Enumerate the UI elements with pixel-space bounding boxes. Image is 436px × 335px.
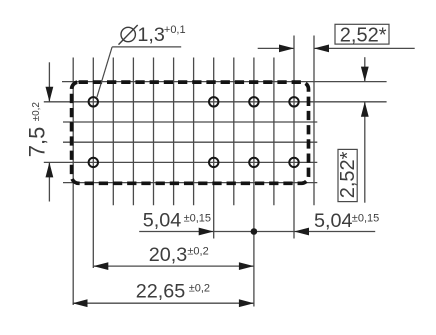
grid vertical line col9 x=253.9 (datum extension) <box>253 58 255 307</box>
hole diameter tolerance +0,1 <box>164 24 186 36</box>
dimension 7,5 left: upper tail line <box>48 62 50 102</box>
svg-text:±0,2: ±0,2 <box>31 102 42 122</box>
svg-text:±0,2: ±0,2 <box>189 282 210 294</box>
dimension 7,5 left: up arrow <box>46 162 54 177</box>
dimension 7,5 left: value text (rotated) <box>24 127 49 158</box>
svg-text:5,04: 5,04 <box>314 210 353 232</box>
dimension 22,65: dimension line <box>73 302 254 304</box>
dimension 22,65: left arrow <box>73 299 88 307</box>
dimension 2,52 top: left arrow <box>279 45 294 53</box>
dimension 2,52 top: left tail line <box>258 47 294 49</box>
hole B3 <box>249 158 258 167</box>
dimension 20,3: left arrow <box>93 262 108 270</box>
dimension 2,52 right: framed value box <box>338 149 357 201</box>
svg-text:5,04: 5,04 <box>143 210 182 232</box>
svg-text:±0,15: ±0,15 <box>184 212 211 224</box>
hole A2 <box>209 97 218 106</box>
dimension 2,52 right: value text (rotated) <box>337 151 359 198</box>
dimension 2,52 right: down arrow <box>361 67 369 82</box>
grid vertical line col8 x=233.8 <box>233 58 235 206</box>
grid horizontal line row5 y=181.6 (bottom edge) <box>63 182 317 184</box>
hole A3 <box>249 97 258 106</box>
relay body outline (dashed rounded rectangle) <box>72 82 309 183</box>
grid vertical line col1 x=93.3 (20,3 extension) <box>92 58 94 269</box>
grid vertical line col3 x=133.4 <box>132 58 134 206</box>
grid vertical line col10 x=273.9 <box>273 58 275 206</box>
dimension 22,65: tolerance ±0,2 <box>189 282 210 294</box>
dimension 2,52 right: upper tail line <box>364 57 366 81</box>
dimension 7,5 left: tolerance ±0,2 (rotated) <box>31 102 42 122</box>
dimension 2,52 right: up arrow <box>361 102 369 117</box>
hole A1 (top-left) <box>89 97 98 106</box>
dimension 20,3: right arrow <box>239 262 254 270</box>
dimension 7,5 left: lower tail line <box>48 162 50 201</box>
grid horizontal line row1 y=101.0 (upper hole row, 7,5 and 2,52 extension) <box>44 101 387 103</box>
svg-text:±0,2: ±0,2 <box>187 245 208 257</box>
grid horizontal line row0 y=80.8 (top edge, 2,52 extension right) <box>62 81 387 83</box>
dimension 22,65: right arrow <box>239 299 254 307</box>
hole diameter label leader line <box>97 47 181 97</box>
dimension 5,04 bottom: left arrow (points right at col7) <box>199 228 214 236</box>
dimension 5,04 right value text <box>314 210 353 232</box>
grid vertical line col11 x=294.0 (2,52 and 5,04 extension) <box>293 36 295 239</box>
hole A4 (top-right) <box>289 97 298 106</box>
svg-text:1,3: 1,3 <box>137 24 165 46</box>
svg-text:+0,1: +0,1 <box>164 24 186 36</box>
dimension 20,3: dimension line <box>93 265 254 267</box>
dimension 2,52 top: right arrow <box>314 45 329 53</box>
hole diameter label text 1,3 <box>137 24 165 46</box>
grid vertical line col2 x=113.3 <box>112 58 114 206</box>
dimension 2,52 top: framed value box <box>335 24 389 44</box>
dimension 20,3: tolerance ±0,2 <box>187 245 208 257</box>
dimension 20,3: value text <box>149 244 188 266</box>
dimension 2,52 top: value text <box>340 25 387 47</box>
dimension 5,04 bottom: dimension line <box>139 231 375 233</box>
svg-text:7,5: 7,5 <box>24 127 49 158</box>
grid horizontal line row2 y=121.1 <box>63 121 317 123</box>
grid vertical line col7 x=213.7 (5,04 extension) <box>213 58 215 239</box>
hole B4 (bottom-right) <box>289 158 298 167</box>
dimension 5,04 right tolerance ±0,15 <box>352 213 379 225</box>
hole B2 <box>209 158 218 167</box>
grid vertical line col12 x=314.0 (2,52 extension) <box>313 36 315 206</box>
svg-text:±0,15: ±0,15 <box>352 213 379 225</box>
grid vertical line col6 x=193.6 <box>193 58 195 206</box>
grid vertical line col5 x=173.6 <box>173 58 175 206</box>
grid horizontal line row4 y=161.4 (lower hole row, 7,5 extension) <box>44 161 318 163</box>
dimension 2,52 top: right tail line <box>314 47 415 49</box>
svg-text:22,65: 22,65 <box>136 280 186 302</box>
grid vertical line col0 x=73.2 (22,65 extension) <box>72 58 74 306</box>
svg-text:20,3: 20,3 <box>149 244 188 266</box>
grid horizontal line row3 y=141.3 <box>63 141 317 143</box>
dimension 7,5 left: down arrow <box>46 87 54 102</box>
hole diameter label text ⌀1,3 <box>119 25 138 45</box>
svg-text:2,52*: 2,52* <box>337 151 359 198</box>
svg-text:2,52*: 2,52* <box>340 25 387 47</box>
dimension 2,52 right: lower tail line <box>364 102 366 203</box>
hole B1 (bottom-left) <box>89 158 98 167</box>
dimension 5,04 left value text <box>143 210 182 232</box>
dimension 5,04 bottom: right arrow (points left at col11) <box>294 228 309 236</box>
dimension 5,04 bottom: datum dot <box>251 228 258 235</box>
grid vertical line col4 x=153.5 <box>153 58 155 206</box>
dimension 22,65: value text <box>136 280 186 302</box>
dimension 5,04 left tolerance ±0,15 <box>184 212 211 224</box>
